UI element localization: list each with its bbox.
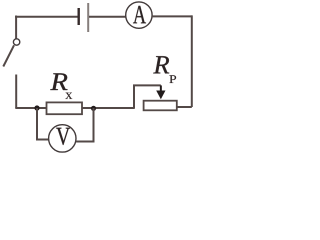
rheostat RP box (144, 101, 177, 111)
node junction dot right (91, 106, 96, 111)
voltmeter label V (56, 128, 70, 145)
wire battery to ammeter (89, 16, 126, 18)
label Rx (50, 73, 67, 90)
ammeter label A (133, 6, 146, 23)
wire ammeter to top-right corner (152, 15, 192, 17)
rheostat RP wiper arrowhead (156, 91, 165, 100)
switch S1 pivot circle (13, 39, 19, 45)
voltmeter U2 circle (49, 125, 76, 152)
wire left vertical upper (15, 16, 17, 39)
voltmeter branch right wire (76, 108, 94, 142)
wire bottom-left horizontal (15, 107, 47, 109)
wire riser to wiper rail (134, 85, 161, 108)
voltmeter branch left wire (37, 108, 49, 140)
label Rx subscript x (65, 93, 72, 99)
wire left vertical lower (15, 75, 17, 109)
battery B1 long plate (positive) (87, 3, 89, 32)
wire top-left horizontal (15, 16, 78, 18)
node junction dot left (34, 105, 39, 110)
wire Rx to riser (82, 107, 135, 109)
label RP subscript P (169, 75, 176, 83)
battery B1 short plate (negative) (77, 8, 79, 25)
rheostat RP wiper arrow shaft (160, 85, 162, 91)
resistor Rx box (47, 102, 83, 114)
label RP (153, 56, 169, 73)
wire rheostat to right vertical (177, 106, 192, 108)
switch S1 blade (open) (3, 45, 14, 66)
ammeter U1 circle (126, 2, 152, 28)
wire right vertical (191, 15, 193, 107)
